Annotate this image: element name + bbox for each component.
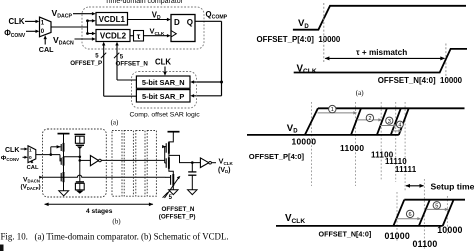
svg-text:(b): (b) [112, 217, 121, 225]
wire OFFSET_P bus [102, 42, 136, 96]
step circle 2 [366, 114, 373, 122]
waveform V_CLK (b) top line [404, 199, 465, 201]
waveform edge 2 V_CLK [419, 200, 430, 226]
dashed box stage 3 [124, 131, 133, 197]
wire NMOS source to current source [63, 165, 65, 172]
step arrow 1 [318, 111, 358, 114]
svg-text:VDACN: VDACN [23, 176, 40, 183]
guide dashed lines V_CLK (b) [396, 192, 398, 242]
wire CLK to mux (b) [21, 148, 28, 151]
dashed box Comp offset SAR logic [132, 72, 197, 109]
svg-text:(VD): (VD) [218, 167, 231, 174]
wire Q output Q_COMP [195, 21, 222, 96]
svg-text:τ + mismatch: τ + mismatch [356, 48, 407, 57]
waveform V_D (b) baseline [247, 134, 399, 136]
dashed box stage 4 [136, 131, 145, 197]
wire input jog to NMOS gate [60, 155, 61, 161]
wire output tap to node [169, 155, 201, 162]
wire PHI_CONV to mux (b) [23, 156, 28, 159]
svg-text:ΦCONV: ΦCONV [1, 155, 19, 162]
bus slash 5 OFFSET_P [101, 53, 106, 59]
svg-text:(a): (a) [111, 118, 119, 126]
wire VCDL2 to tau [130, 35, 134, 37]
wire supply column stage1 [63, 134, 65, 144]
svg-text:(VDACP): (VDACP) [21, 184, 41, 191]
svg-text:VCLK: VCLK [285, 213, 305, 225]
waveform edge 3 V_CLK [443, 200, 454, 226]
wire PMOS gate tap [50, 147, 52, 155]
step arrow 5 [426, 208, 449, 211]
waveform edge 2 V_D [351, 108, 361, 135]
wire to ground adjustable [172, 185, 174, 189]
svg-text:4: 4 [398, 123, 401, 129]
node input dot stage1 [50, 153, 53, 156]
wire common gate output stage [162, 145, 166, 163]
dashed box stage 5 [147, 131, 156, 197]
wire CAL arrow (b) [31, 160, 34, 163]
inverter U2 stage1 buffer [90, 156, 101, 166]
block 5-bit SAR_N [136, 76, 190, 88]
transistor N4 adjustable current source [165, 174, 173, 186]
svg-text:VCLK: VCLK [297, 63, 317, 75]
wire adjustable arrow [165, 176, 181, 198]
block tau delay [134, 31, 144, 42]
step circle 6 [406, 210, 413, 218]
svg-text:5: 5 [95, 53, 99, 59]
svg-text:OFFSET_P: OFFSET_P [70, 60, 102, 67]
inverter U3 output buffer [200, 158, 211, 168]
dashed box stage 2 [112, 131, 122, 197]
ground cap [188, 190, 197, 195]
svg-text:OFFSET_N: OFFSET_N [162, 206, 195, 213]
wire buffer input [80, 159, 91, 161]
step circle 3 [386, 117, 393, 125]
svg-text:10000: 10000 [292, 137, 317, 147]
step arrow 6 [396, 217, 421, 220]
wire drain column stage1 [63, 151, 65, 157]
wire to V_CLK output [211, 162, 216, 164]
svg-text:Setup time: Setup time [431, 182, 474, 192]
svg-text:VCLK: VCLK [219, 157, 234, 166]
svg-text:Comp. offset SAR logic: Comp. offset SAR logic [130, 111, 201, 118]
block VCDL2 [96, 30, 130, 42]
svg-text:VDACP: VDACP [52, 8, 73, 19]
svg-text:6: 6 [409, 212, 412, 218]
svg-text:VCDL1: VCDL1 [99, 15, 126, 24]
svg-text:Q: Q [187, 18, 193, 27]
svg-text:VD: VD [152, 10, 161, 21]
waveform V_D (a) [293, 6, 466, 30]
arrow setup time [405, 184, 424, 188]
svg-text:VCDL2: VCDL2 [100, 32, 127, 41]
node junction dot feedback [220, 81, 223, 84]
mux M2 [28, 146, 36, 163]
svg-text:0: 0 [29, 155, 32, 161]
capacitor C3 load cap [188, 163, 196, 190]
wire mux output to VCDL1/VCDL2 [51, 19, 96, 35]
node dot buffer tap [79, 159, 82, 162]
wire varactor column [79, 149, 81, 182]
svg-text:5: 5 [435, 203, 438, 209]
mux M1 [40, 17, 52, 37]
svg-text:OFFSET_N[4:0]: OFFSET_N[4:0] [319, 230, 372, 239]
svg-text:VDACN: VDACN [53, 35, 74, 47]
wire feedback to SAR_P [190, 94, 221, 97]
guide dashed line left (a) [323, 3, 325, 63]
svg-text:01100: 01100 [413, 239, 438, 249]
wire NMOS source jog to adjustable [169, 168, 173, 174]
wire V_DACN to VCDL2 [75, 37, 96, 40]
svg-text:11000: 11000 [340, 143, 364, 153]
guide dashed lines V_D (b) [311, 102, 313, 186]
svg-text:1: 1 [29, 148, 32, 154]
ground stage1 [59, 191, 69, 196]
wire drain column output stage [168, 153, 170, 157]
svg-text:VD: VD [298, 18, 309, 30]
wire mux output to stage1 input [36, 154, 60, 156]
capacitor C1 MOS varactor upper [74, 134, 85, 149]
wire PHI_CONV to mux [26, 30, 39, 33]
node junction dots on mux branch [86, 19, 89, 22]
arrow tau mismatch [325, 56, 446, 60]
waveform edge 5 V_D [399, 108, 409, 135]
wire V_D from VCDL1 to D input [128, 18, 171, 21]
svg-text:VCLK: VCLK [150, 26, 165, 37]
svg-text:OFFSET_N: OFFSET_N [116, 60, 149, 67]
svg-text:Time-domain comparator: Time-domain comparator [105, 0, 184, 5]
node dot cap junction [191, 161, 194, 164]
block VCDL1 [96, 13, 128, 26]
svg-text:(a): (a) [356, 89, 364, 97]
step circle 5 [433, 202, 440, 210]
svg-text:5-bit SAR_P: 5-bit SAR_P [142, 92, 184, 101]
transistor N2 current source stage1 [61, 172, 63, 182]
wire CAL arrow into mux select [44, 35, 47, 44]
guide dashed line right (a) [445, 44, 447, 81]
step arrow 4 [392, 129, 402, 132]
svg-text:CLK: CLK [155, 58, 171, 67]
svg-text:4 stages: 4 stages [86, 208, 113, 215]
wire OFFSET_N bus [115, 42, 136, 80]
wire signal line through stages [101, 159, 165, 161]
step circle 4 [397, 121, 404, 129]
svg-text:3: 3 [388, 119, 391, 125]
waveform V_CLK (b) baseline [276, 225, 443, 227]
svg-text:(OFFSET_P): (OFFSET_P) [159, 214, 196, 221]
svg-text:QCOMP: QCOMP [206, 10, 228, 21]
svg-text:11111: 11111 [395, 165, 417, 174]
waveform edge 4 V_D [391, 108, 401, 135]
waveform edge 1 V_CLK [393, 200, 404, 226]
wire output node tap stage1 [64, 156, 80, 158]
svg-text:τ: τ [137, 32, 141, 41]
step arrow 2 [357, 118, 382, 121]
ground adjustable [169, 190, 178, 195]
power VDD bar output stage [168, 131, 180, 133]
wire V_CLK from tau to clock input [144, 34, 171, 37]
svg-text:ΦCONV: ΦCONV [4, 28, 26, 39]
dashed box stage 1 [43, 129, 107, 197]
waveform edge 1 V_D [305, 108, 318, 135]
waveform edge 3 V_D [377, 108, 387, 135]
wire feedback to SAR_N [190, 80, 221, 83]
wire to ground stage1 [63, 182, 65, 191]
wire supply column output stage [169, 132, 173, 143]
step circle 1 [329, 105, 336, 113]
svg-text:CLK: CLK [9, 17, 25, 26]
wire bias line V_DACN [39, 175, 165, 179]
svg-text:CAL: CAL [39, 45, 54, 54]
node dot varactor top [79, 156, 82, 159]
block 5-bit SAR_P [136, 90, 190, 102]
svg-text:CLK: CLK [5, 147, 19, 154]
waveform V_D (b) top line [318, 107, 465, 109]
power VDD bar stage1 [58, 133, 70, 135]
svg-text:5: 5 [169, 195, 173, 201]
svg-text:OFFSET_P[4:0]: OFFSET_P[4:0] [249, 152, 305, 161]
step arrow 3 [380, 124, 397, 127]
transistor N1 inverter NMOS [61, 157, 63, 166]
svg-text:Fig. 10. (a) Time-domain com: Fig. 10. (a) Time-domain comparator. (b)… [1, 232, 229, 242]
bus slash 5 adjustable [163, 192, 168, 197]
svg-text:2: 2 [368, 116, 371, 122]
wire V_DACP to VCDL1 [73, 12, 96, 15]
svg-text:01000: 01000 [385, 231, 410, 241]
label 4 stages arrow [44, 203, 153, 207]
bus slash 5 OFFSET_N [114, 53, 119, 59]
svg-text:1: 1 [331, 107, 334, 113]
wire CLK to mux [25, 20, 39, 23]
svg-text:OFFSET_N[4:0] 10000: OFFSET_N[4:0] 10000 [378, 76, 463, 85]
transistor N3 output NMOS [166, 157, 169, 169]
svg-text:VD: VD [287, 123, 298, 135]
waveform V_CLK (a) [294, 49, 467, 73]
wire CLK into SAR_N [163, 67, 166, 76]
transistor P2 output PMOS [166, 142, 169, 154]
corner mark bottom-left [0, 245, 4, 251]
dashed box time-domain comparator [82, 7, 204, 49]
svg-text:OFFSET_P[4:0] 10000: OFFSET_P[4:0] 10000 [257, 35, 341, 44]
svg-text:D: D [174, 18, 180, 27]
flip-flop U1 D-FF [171, 15, 195, 42]
capacitor C2 MOS varactor lower [75, 182, 84, 194]
svg-text:CAL: CAL [27, 165, 39, 171]
transistor P1 inverter PMOS [51, 143, 64, 152]
svg-text:5-bit SAR_N: 5-bit SAR_N [142, 78, 185, 87]
svg-text:10000: 10000 [437, 225, 462, 235]
